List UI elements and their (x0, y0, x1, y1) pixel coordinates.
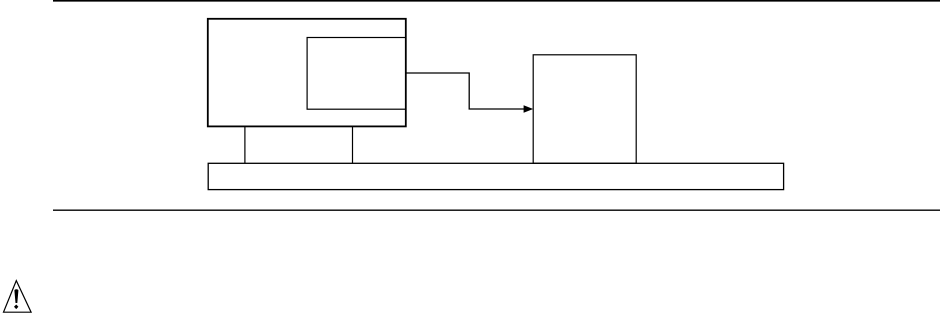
exclamation bar (14, 289, 18, 303)
arrowhead (524, 105, 534, 112)
outer box (host unit) (208, 19, 406, 127)
left support wire (244, 126, 246, 163)
exclamation diamond dot (14, 305, 18, 310)
top rule (53, 0, 940, 2)
connection wire (inner box to right box) (406, 73, 525, 109)
caution triangle (4, 281, 32, 313)
right support wire (352, 126, 354, 163)
base bar (mounting plate) (208, 163, 783, 189)
inner box (module) (307, 38, 406, 110)
right box (target unit) (533, 55, 636, 164)
bottom rule (53, 209, 940, 211)
